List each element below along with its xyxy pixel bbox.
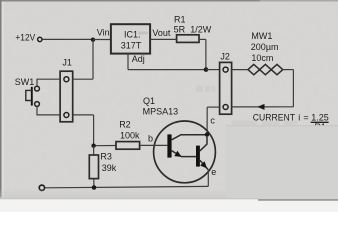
- svg-text:J1: J1: [62, 57, 72, 67]
- svg-text:J2: J2: [220, 51, 230, 61]
- svg-text:R2: R2: [119, 119, 131, 129]
- wire J2 pin1 to MW1: [232, 69, 248, 71]
- T2 emitter arrow: [200, 161, 207, 168]
- SW1 actuator bar: [31, 87, 33, 106]
- wire node C to R2: [94, 145, 116, 147]
- svg-text:1.25: 1.25: [311, 113, 329, 123]
- wire SW1 top to J1: [37, 79, 60, 86]
- resistor R1: [177, 35, 199, 43]
- node B junction dot: [204, 67, 209, 72]
- svg-text:5R: 5R: [174, 24, 186, 34]
- T2 emitter line: [200, 160, 208, 169]
- wire R1 down to node B: [205, 39, 207, 69]
- wire R2 to Q1 base: [140, 144, 168, 146]
- J1 pin 2: [64, 113, 69, 118]
- wire IC1 Adj down: [127, 54, 129, 70]
- rail junction dot: [92, 185, 97, 190]
- micro-wire element MW1 (diamond chain): [248, 64, 283, 74]
- wire +12V to node A: [42, 38, 93, 40]
- wire MW1 right: [283, 69, 294, 71]
- svg-text:MPSA13: MPSA13: [143, 106, 179, 116]
- ghost scan artifact above grey box: [231, 121, 298, 126]
- T1 collector path: [172, 135, 207, 140]
- svg-text:317T: 317T: [121, 41, 142, 51]
- wire J1 pin2 right: [73, 114, 94, 116]
- svg-text:R1: R1: [174, 14, 186, 24]
- wire node C to R3: [93, 146, 95, 155]
- wire down to collector node: [206, 107, 208, 135]
- collector node dot: [205, 132, 209, 136]
- wire node A to IC1 Vin: [93, 39, 111, 41]
- svg-text:MW1: MW1: [251, 31, 272, 41]
- wire return to J2 pin 2: [232, 106, 294, 108]
- wire emitter down: [207, 170, 209, 187]
- ghost scan artifact near collector: [196, 86, 216, 93]
- wire node B to J2 pin 1: [206, 69, 220, 71]
- ground rail wire: [45, 186, 209, 187]
- wire J2 pin 2 left: [207, 106, 219, 108]
- svg-text:Vin: Vin: [97, 27, 110, 37]
- grey overlay box: [226, 125, 338, 200]
- connector J1: [60, 71, 73, 122]
- wire node A down: [92, 40, 94, 79]
- current direction arrow: [257, 104, 264, 110]
- svg-text:=: =: [303, 112, 308, 122]
- +12V terminal: [38, 37, 42, 41]
- wire Vout to R1: [150, 38, 177, 40]
- wire J1 pin1 to node A drop: [73, 78, 93, 80]
- top border line: [0, 0, 260, 2]
- svg-text:10cm: 10cm: [251, 53, 273, 63]
- svg-text:e: e: [211, 167, 216, 177]
- transistor Q1 circle: [154, 121, 216, 183]
- svg-text:200µm: 200µm: [251, 42, 279, 52]
- T2 collector path: [200, 137, 207, 151]
- svg-text:b: b: [148, 134, 153, 144]
- svg-text:Vout: Vout: [152, 28, 171, 38]
- svg-text:c: c: [210, 116, 215, 126]
- SW1 top contact: [35, 86, 40, 91]
- J1 pin 1: [64, 77, 69, 82]
- svg-text:IC1.: IC1.: [124, 30, 141, 40]
- T1 emitter line: [172, 151, 181, 157]
- connector J2: [220, 62, 232, 114]
- svg-text:R3: R3: [100, 151, 112, 161]
- resistor R3: [89, 155, 98, 179]
- wire Adj to node B: [128, 69, 206, 71]
- op-amp regulator IC1 317T box: [111, 24, 150, 53]
- base bar T2: [196, 146, 200, 167]
- ground terminal: [39, 185, 44, 190]
- bottom edge soft line left: [0, 198, 258, 199]
- wire T1 emitter to T2 base: [181, 156, 196, 158]
- bottom shading band: [0, 188, 338, 199]
- wire R1 right: [199, 38, 206, 40]
- T1 emitter arrow: [174, 151, 181, 157]
- node C junction dot: [91, 144, 95, 148]
- base bar T1: [167, 134, 171, 157]
- smudge artifact: [138, 32, 148, 35]
- svg-text:Adj: Adj: [132, 54, 145, 64]
- bottom edge dark line right: [258, 199, 338, 201]
- svg-text:SW1: SW1: [15, 77, 35, 87]
- wire SW1 bottom to J1: [37, 106, 60, 115]
- left border line: [0, 0, 2, 198]
- svg-text:+12V: +12V: [15, 33, 35, 43]
- wire down to node C: [93, 115, 95, 146]
- bottom white strip: [0, 199, 338, 212]
- wire R3 to ground rail: [93, 179, 95, 188]
- svg-text:i: i: [298, 113, 300, 123]
- resistor R2: [116, 142, 140, 150]
- wire down right side: [292, 70, 294, 107]
- J2 pin 2: [223, 105, 228, 110]
- SW1 bottom contact: [35, 102, 40, 107]
- svg-text:39k: 39k: [102, 163, 117, 173]
- svg-text:100k: 100k: [120, 130, 140, 140]
- J2 pin 1: [223, 67, 228, 72]
- svg-text:Q1: Q1: [143, 96, 155, 106]
- node A junction dot: [91, 38, 95, 42]
- svg-text:1/2W: 1/2W: [190, 24, 212, 34]
- fraction bar: [311, 121, 329, 123]
- SW1 button bracket: [26, 90, 32, 100]
